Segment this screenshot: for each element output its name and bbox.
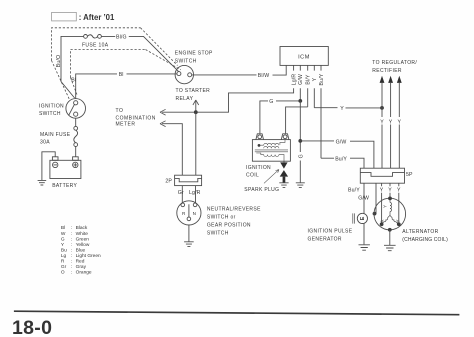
svg-text:NEUTRAL/REVERSE: NEUTRAL/REVERSE [207,206,261,212]
label ENGINE STOP SWITCH [175,51,213,65]
svg-text:5P: 5P [406,172,413,178]
label 2P [165,178,172,184]
svg-text:G: G [61,236,65,242]
svg-text:Y: Y [61,242,65,248]
svg-text::: : [71,237,72,242]
ICM U1 [280,47,328,66]
svg-text:IGNITION PULSE: IGNITION PULSE [308,229,353,235]
label G/W (to 5P) [336,139,347,145]
svg-text:Light Green: Light Green [76,253,101,259]
svg-text:Y: Y [395,218,401,224]
wires Y to 5P (3 vertical) [382,83,399,168]
svg-text:SWITCH: SWITCH [207,230,229,236]
svg-text:R: R [182,211,186,216]
label BATTERY [52,183,77,189]
svg-text:GEAR POSITION: GEAR POSITION [207,222,251,228]
page number 18-0 [12,317,52,337]
alternator (charging coil) [374,198,406,230]
label Bl/W [258,73,270,79]
svg-text:N: N [193,211,196,216]
svg-text:Bl/G: Bl/G [116,34,127,40]
arrows to regulator (3 solid) [380,76,402,83]
wire Lg/R ICM to junction [197,88,294,112]
svg-text:Gr: Gr [178,190,184,196]
label Gr [178,190,184,196]
svg-text:Y: Y [397,188,401,194]
svg-text:TO STARTER: TO STARTER [176,88,211,94]
svg-text:Black: Black [76,225,88,231]
label E in pulse generator [360,216,366,220]
svg-text:Red: Red [76,259,85,265]
svg-text:Bl/W: Bl/W [258,73,270,79]
svg-text:G: G [269,99,273,105]
wire Gr to combination meter 2 [162,124,182,176]
svg-text:Green: Green [76,236,90,242]
wire Bl/G fuse to engine stop switch [101,36,178,71]
dashed After '01 boundary inner [71,50,181,96]
svg-text:Bu: Bu [61,247,67,253]
label R (in switch) [182,211,186,216]
label IGNITION SWITCH [39,103,64,117]
svg-text:(CHARGING COIL): (CHARGING COIL) [402,237,448,243]
svg-text:METER: METER [116,121,136,127]
engine stop switch [175,65,193,83]
wire G ignition coil to junction [260,101,299,133]
label G (horizontal) [269,99,273,105]
svg-text:Y: Y [383,205,388,208]
connector 2P [175,175,202,185]
svg-text:18-0: 18-0 [12,317,52,337]
svg-text:Blue: Blue [76,247,86,253]
label Bl (mid wire) [119,72,124,78]
label Bu/O [56,55,62,67]
svg-text:RELAY: RELAY [176,96,194,102]
svg-text:Bu/Y: Bu/Y [348,187,360,193]
svg-text:Y: Y [312,77,318,81]
svg-text:W: W [61,231,66,237]
svg-text:BATTERY: BATTERY [52,183,77,189]
svg-text:Bl: Bl [71,78,76,84]
legend text : After '01 [79,13,115,22]
svg-text:Gr: Gr [61,264,67,270]
label Lg/R [189,190,201,196]
labels Y below 5P [380,188,401,194]
ground (neutral switch) [184,242,194,247]
svg-text:MAIN FUSE: MAIN FUSE [40,132,71,138]
svg-text::: : [71,226,72,231]
arrow to starter relay [193,100,199,111]
ICM pin stubs [294,65,321,158]
svg-text:Y: Y [340,106,344,112]
wire Bl/Y ICM to ignition coil [286,107,308,133]
svg-text::: : [71,260,72,265]
label Bl (at bend) [71,78,76,84]
svg-text:RECTIFIER: RECTIFIER [372,68,402,74]
node junction G at G/W line [298,99,302,103]
wire neutral switch to ground [188,225,190,242]
label TO REGULATOR/RECTIFIER [372,60,417,74]
ignition pulse generator [353,213,368,223]
svg-text::: : [71,265,72,270]
neutral/reverse switch [177,201,201,225]
wire Bu/Y 5P to ignition pulse generator [363,183,365,244]
svg-text:COIL: COIL [246,173,259,179]
label TO STARTER RELAY [176,88,211,102]
svg-text:G/W: G/W [298,74,304,85]
wire Gr 2P to neutral switch [181,186,183,204]
svg-text:2P: 2P [165,178,172,184]
node G/W at alternator [373,212,377,216]
color code legend [61,225,101,276]
wire G/W 5P to alternator [375,183,376,213]
node junction Lg/R [194,110,198,114]
svg-text:ENGINE STOP: ENGINE STOP [175,51,213,57]
wire to combination meter 1 [162,111,194,113]
wire battery negative to ground [42,152,55,180]
svg-text::: : [71,248,72,253]
svg-text:Bu/Y: Bu/Y [319,73,325,85]
label Bu/Y (to 5P) [335,157,347,163]
ground (pulse generator) [359,245,370,250]
label Bl/G [116,34,127,40]
fuse F10A [84,35,102,39]
svg-text:GENERATOR: GENERATOR [308,237,342,243]
ground (G wire) [296,183,305,188]
label ALTERNATOR (CHARGING COIL) [402,229,448,243]
svg-text:E: E [360,216,366,220]
svg-text:IGNITION: IGNITION [39,103,64,109]
svg-text:G/W: G/W [336,139,347,145]
dashed After '01 boundary outer [52,28,178,99]
spark plug leader arrow [264,170,279,184]
wire G/W ICM down to ground with G label [299,101,301,183]
svg-text:Gray: Gray [76,264,87,270]
connector 5P [360,168,404,183]
bottom rule [14,311,460,315]
svg-text:Y: Y [379,218,385,224]
svg-text:Bl/Y: Bl/Y [305,74,311,85]
label NEUTRAL/REVERSE SWITCH or GEAR POSITION SWITCH [207,206,261,236]
label Y (horizontal) [340,106,344,112]
svg-text:ICM: ICM [298,54,310,60]
alternator terminal nodes [380,197,401,232]
label G (vertical) [298,154,304,158]
svg-text:Y: Y [380,119,384,125]
svg-text:Lg: Lg [61,253,67,259]
wire Y ICM to junction [314,107,382,109]
svg-text:SWITCH: SWITCH [39,111,61,117]
svg-text:Bl: Bl [61,225,65,231]
svg-text::: : [71,232,72,237]
wire Bu/Y ICM to 5P [321,158,364,168]
svg-text:Lg/R: Lg/R [189,190,201,196]
wire Bl/W engine stop switch to ICM pin1 [192,65,286,75]
svg-text:Y: Y [397,119,401,125]
svg-text:Y: Y [388,188,392,194]
label TO COMBINATION METER [116,108,156,127]
svg-text:Y: Y [389,119,393,125]
svg-text:SWITCH: SWITCH [175,58,197,64]
wire G/W branch to 5P [300,141,374,168]
label Bu/Y (below 5P) [348,187,360,193]
svg-text:IGNITION: IGNITION [246,165,271,171]
svg-text::: : [71,271,72,276]
node junction Y [380,106,384,110]
labels Y inside alternator [379,205,400,224]
labels Y on regulator wires [380,119,401,125]
svg-text:SWITCH or: SWITCH or [207,214,236,220]
wire coil secondary to spark plug [283,161,285,162]
ignition coil windings [255,140,288,162]
label FUSE 10A [82,42,109,48]
spark plug [280,162,288,182]
wire Bu/O from ignition switch to fuse 10A [61,36,84,98]
svg-text:SPARK PLUG: SPARK PLUG [244,187,279,193]
svg-text:R: R [61,259,65,265]
svg-text:ALTERNATOR: ALTERNATOR [402,229,438,235]
ground (alternator) [384,245,396,250]
ignition coil T1 [252,134,290,161]
svg-text:Y: Y [380,188,384,194]
svg-text:TO: TO [116,108,124,114]
svg-text:O: O [61,270,65,276]
svg-text:Lg/R: Lg/R [291,74,297,86]
wire Bl ignition switch to engine stop switch [76,74,177,99]
label 5P [406,172,413,178]
label N (in switch) [193,211,196,216]
wires Y 5P to alternator (3) [382,183,399,224]
label G/W (below 5P) [358,195,369,201]
battery [50,157,81,179]
ground (spark plug) [279,183,288,188]
svg-text:FUSE 10A: FUSE 10A [82,42,109,48]
node coil primary dot [258,144,261,147]
ICM pin labels [291,73,325,85]
svg-text:: After ’01: : After ’01 [79,13,115,22]
label IGNITION COIL [246,165,271,179]
legend box (After '01 sample) [52,12,77,21]
label MAIN FUSE 30A [40,132,71,146]
svg-text:White: White [76,231,89,237]
arrow to combination meter 2 [160,121,166,127]
svg-text:30A: 30A [40,140,50,146]
label IGNITION PULSE GENERATOR [308,229,353,243]
alternator windings [382,200,397,224]
svg-text:Bu/O: Bu/O [56,55,62,67]
label SPARK PLUG [244,187,279,193]
svg-text:Bu/Y: Bu/Y [335,157,347,163]
svg-text:TO REGULATOR/: TO REGULATOR/ [372,60,417,66]
ignition switch [66,99,86,119]
ground (battery) [38,180,47,185]
svg-text:G/W: G/W [358,195,369,201]
svg-text:Orange: Orange [76,270,92,276]
arrow to combination meter 1 [160,109,166,115]
wire Lg/R junction to 2P connector [195,112,197,175]
label ICM [298,54,310,60]
svg-text::: : [71,243,72,248]
svg-text:Bl: Bl [119,72,124,78]
svg-text:G: G [298,154,304,158]
wire alternator to ground [389,230,391,245]
svg-text:Yellow: Yellow [76,242,90,248]
main fuse 30A [74,118,78,156]
svg-text::: : [71,254,72,259]
node junction G/W branch [298,139,302,143]
wire Lg/R 2P to neutral switch [195,186,197,204]
